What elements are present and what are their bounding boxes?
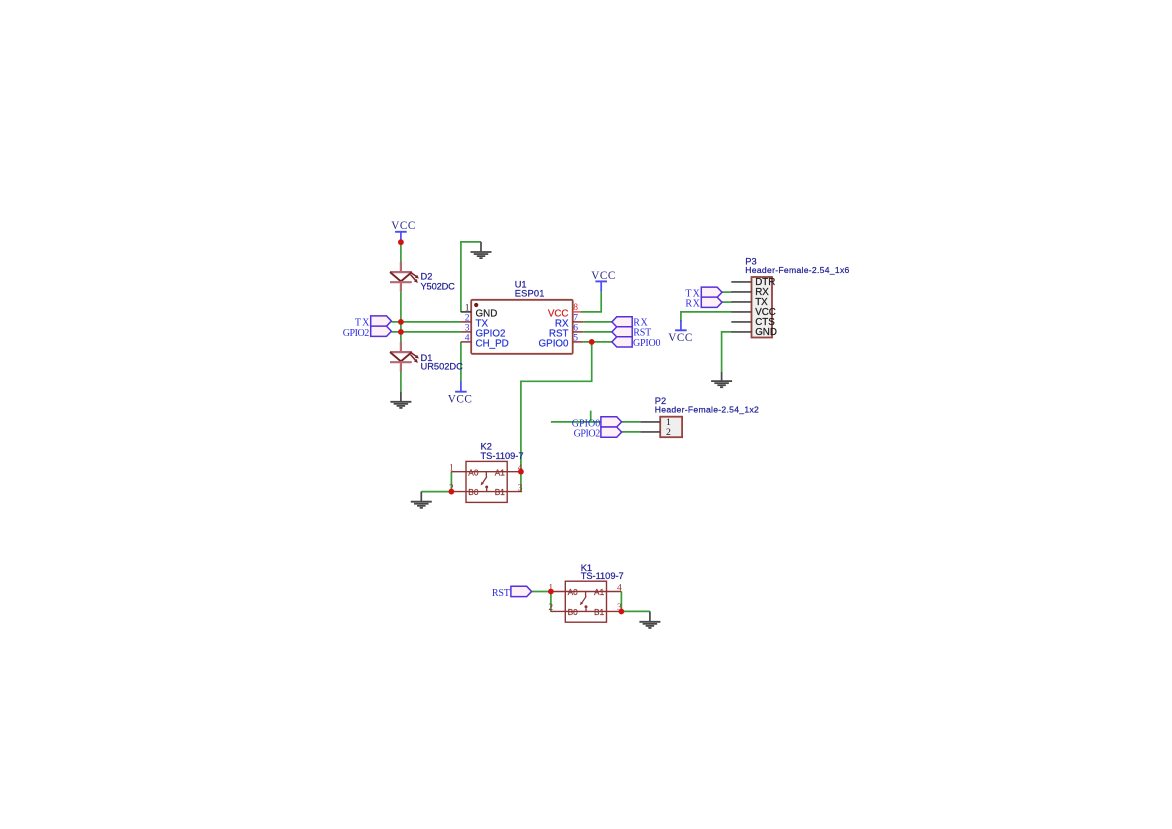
svg-text:VCC: VCC: [668, 332, 692, 344]
svg-text:A1: A1: [594, 587, 605, 597]
svg-text:K2: K2: [481, 442, 492, 452]
svg-text:A1: A1: [495, 467, 506, 477]
switch K1 TS-1109-7: [548, 581, 622, 622]
net flag GPIO2 (U1 pin 3): [343, 326, 392, 339]
power flag VCC (below U1 pin 4 CH_PD): [448, 381, 472, 405]
wire U1 pin 7 to RX flag: [583, 321, 612, 323]
svg-text:4: 4: [465, 334, 470, 344]
svg-text:VCC: VCC: [448, 394, 472, 406]
wire net GPIO0 down to K2 pin 4: [521, 342, 592, 472]
IC U1 ESP01 body and pins: [461, 300, 584, 354]
svg-text:TS-1109-7: TS-1109-7: [481, 451, 524, 461]
svg-text:B1: B1: [594, 607, 605, 617]
wire K2 pin 4 to pin 3: [520, 472, 522, 492]
svg-text:TS-1109-7: TS-1109-7: [581, 571, 624, 581]
svg-text:B0: B0: [468, 487, 479, 497]
svg-text:2: 2: [465, 314, 470, 324]
power flag VCC (P3 VCC pin, inverted): [668, 320, 692, 344]
svg-text:A0: A0: [568, 587, 579, 597]
svg-text:GPIO2: GPIO2: [343, 328, 370, 339]
junction dot at VCC/D2 node: [398, 239, 404, 245]
svg-text:7: 7: [573, 314, 578, 324]
svg-text:8: 8: [573, 303, 578, 313]
wire K1 pin 1 to pin 2: [550, 592, 552, 612]
junction dot K2 pin 2: [449, 489, 455, 495]
net flag RX (U1 pin 7): [612, 317, 649, 329]
svg-text:Y502DC: Y502DC: [421, 281, 456, 291]
svg-text:Header-Female-2.54_1x2: Header-Female-2.54_1x2: [655, 405, 759, 415]
wire net GPIO0 stub left of P2 flag: [551, 421, 601, 423]
wire GPIO0 flag to P2 pin 1: [621, 421, 641, 423]
svg-text:GND: GND: [755, 327, 777, 338]
ground (K1 pin 3): [639, 611, 660, 628]
wire D1 cathode to ground: [400, 371, 402, 392]
svg-text:GPIO0: GPIO0: [539, 338, 569, 349]
wire D2 cathode to D1 anode (net TX/GPIO2 column): [400, 292, 402, 342]
wire TX flag to P3 RX pin: [720, 291, 732, 293]
net flag TX (U1 pin 2): [355, 316, 392, 329]
net flag RST (U1 pin 6): [612, 327, 651, 339]
net flag GPIO0 (to P2 pin 1): [572, 417, 622, 430]
net flag TX (to P3 RX): [685, 287, 722, 299]
svg-text:2: 2: [548, 603, 553, 613]
svg-text:RX: RX: [685, 298, 700, 309]
power flag VCC (top left, feeds D2): [391, 220, 415, 242]
junction dot TX/D2 node: [398, 319, 404, 325]
svg-text:3: 3: [518, 483, 523, 493]
svg-text:A0: A0: [468, 467, 479, 477]
svg-text:1: 1: [449, 464, 454, 474]
wire U1 pin 1 GND to ground symbol: [461, 242, 481, 312]
wire K2 pin 2 to ground: [421, 491, 451, 493]
wire K1 pin 3 to ground: [621, 610, 650, 612]
wire P3 VCC pin to VCC symbol: [681, 312, 732, 322]
svg-text:VCC: VCC: [591, 270, 615, 282]
wire GPIO2 flag to P2 pin 2: [621, 431, 641, 433]
svg-text:B1: B1: [495, 487, 506, 497]
wire net TX: flag to U1 pin 2: [391, 321, 461, 323]
svg-text:4: 4: [617, 583, 622, 593]
LED D1: [390, 342, 419, 372]
net flag GPIO2 (to P2 pin 2): [574, 427, 622, 440]
net flag RX (to P3 TX): [685, 297, 722, 309]
wire RST flag to K1 pin 1: [531, 591, 551, 593]
svg-text:5: 5: [573, 334, 578, 344]
wire U1 pin 4 CH_PD to VCC: [460, 342, 462, 382]
connector P2 Header-Female-2.54_1x2 body and pins: [640, 417, 682, 438]
wire RX flag to P3 TX pin: [720, 301, 732, 303]
svg-text:6: 6: [573, 324, 578, 334]
power flag VCC (above U1 pin 8): [591, 270, 615, 292]
wire U1 pin 5 to GPIO0 flag: [583, 341, 612, 343]
junction dot K1 pin 1: [548, 589, 554, 595]
ground (U1 pin 1 GND net): [471, 242, 492, 258]
junction dot GPIO2/D1 node: [398, 329, 404, 335]
svg-text:GPIO2: GPIO2: [574, 429, 601, 440]
wire K2 pin 1 to pin 2: [450, 472, 452, 492]
junction dot GPIO0 node: [589, 339, 595, 345]
svg-text:RST: RST: [492, 588, 510, 599]
svg-text:D2: D2: [421, 271, 433, 281]
svg-text:UR502DC: UR502DC: [421, 362, 464, 372]
svg-text:1: 1: [465, 304, 470, 314]
svg-text:3: 3: [465, 324, 470, 334]
svg-text:2: 2: [666, 427, 671, 438]
wire VCC to D2 anode: [400, 242, 402, 262]
svg-text:GPIO0: GPIO0: [633, 338, 661, 349]
svg-text:ESP01: ESP01: [515, 289, 545, 299]
ground (K2 pins 1-2): [411, 492, 432, 508]
connector P3 Header-Female-2.54_1x6 body and pins: [731, 277, 772, 338]
wire net GPIO0 stub above P2 flag: [590, 411, 592, 422]
net flag RST (to K1 pin 1): [492, 586, 532, 599]
svg-text:VCC: VCC: [391, 220, 415, 232]
svg-text:Header-Female-2.54_1x6: Header-Female-2.54_1x6: [745, 265, 849, 275]
svg-text:CH_PD: CH_PD: [476, 338, 509, 349]
wire U1 pin 8 to VCC: [581, 292, 602, 312]
wire K1 pin 4 to pin 3: [620, 592, 622, 612]
wire net GPIO2: flag to U1 pin 3: [391, 331, 461, 333]
wire P3 GND pin to ground: [722, 332, 732, 372]
ground (P3 GND pin): [711, 372, 732, 388]
LED D2: [390, 262, 419, 292]
switch K2 TS-1109-7: [449, 461, 523, 502]
wire U1 pin 6 to RST flag: [583, 331, 612, 333]
junction dot K2 pin 4: [518, 469, 524, 475]
net flag GPIO0 (U1 pin 5): [612, 337, 661, 349]
junction dot K1 pin 3: [619, 609, 625, 615]
svg-text:B0: B0: [568, 607, 579, 617]
ground (below D1): [390, 392, 411, 408]
